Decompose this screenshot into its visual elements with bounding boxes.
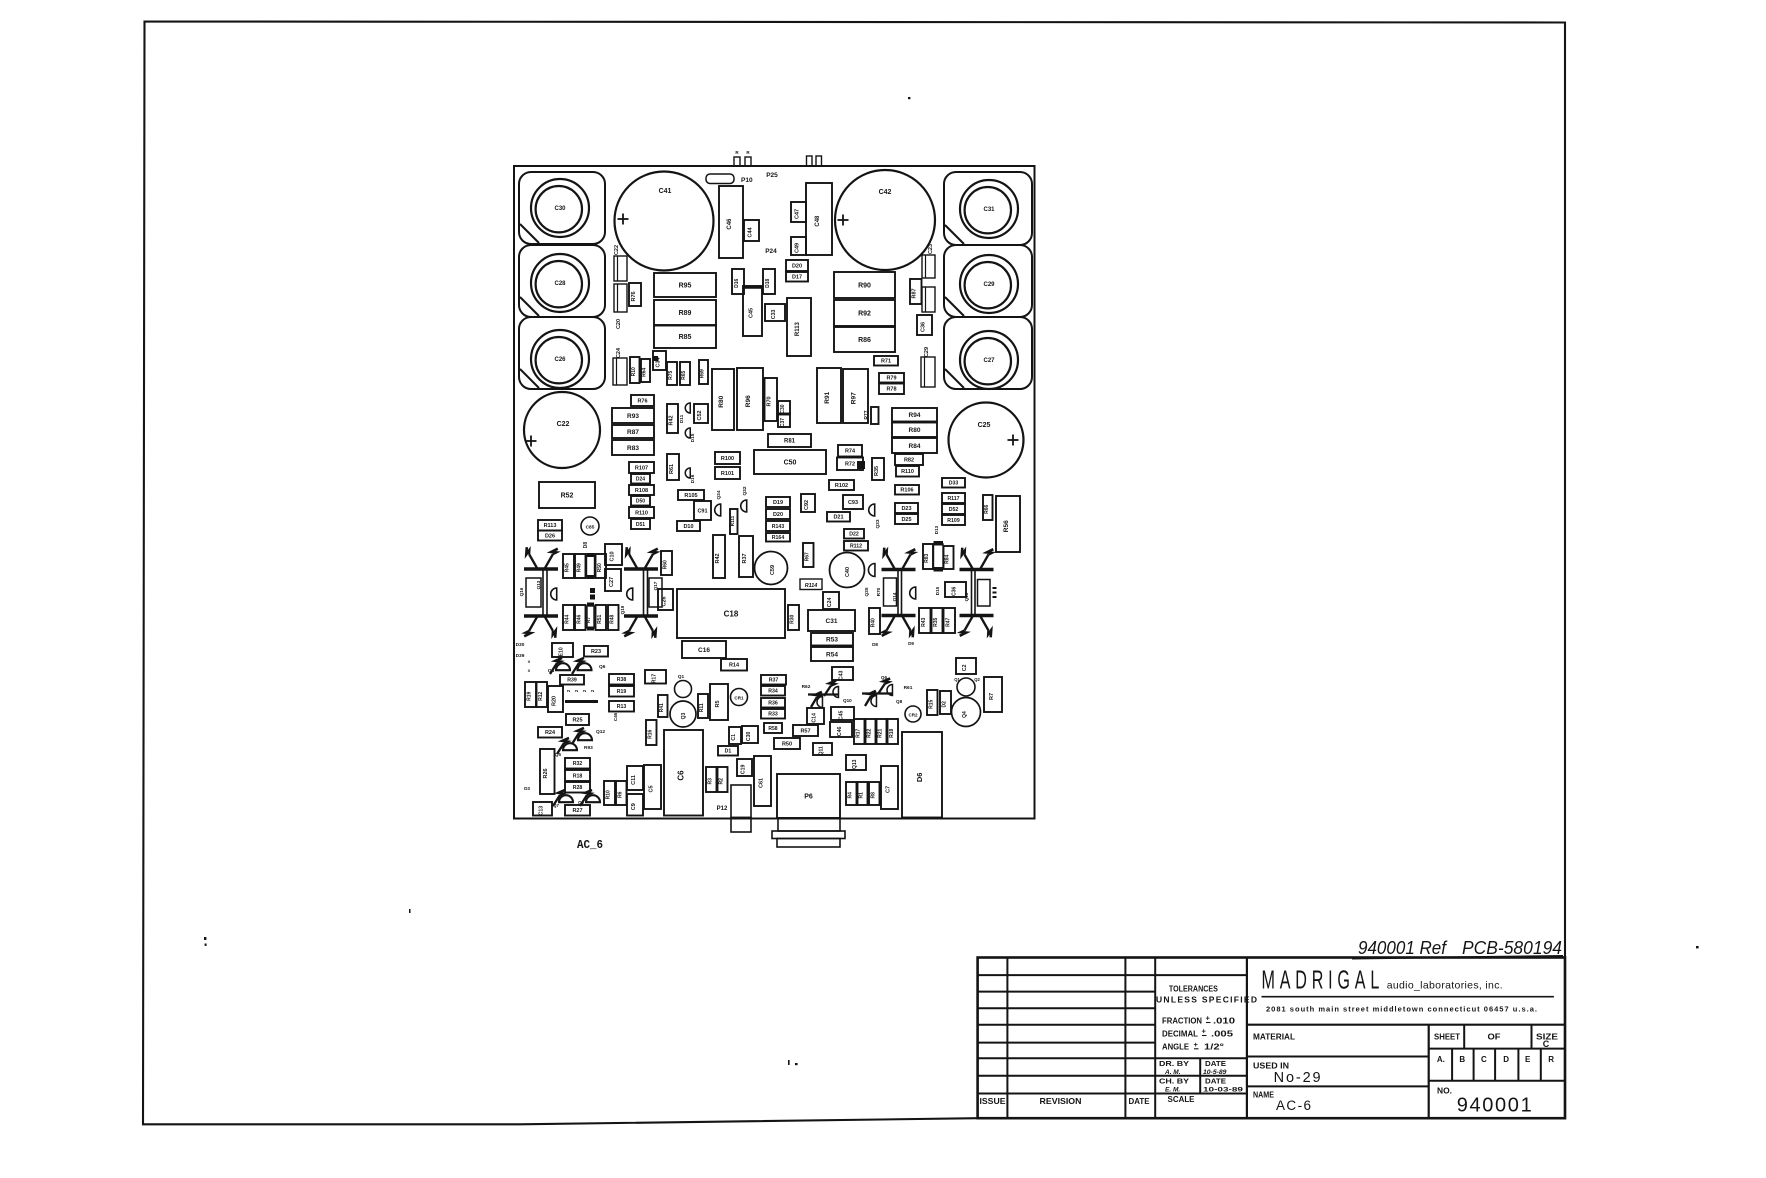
svg-text:R64: R64 bbox=[642, 367, 648, 376]
svg-text:R84: R84 bbox=[909, 443, 921, 450]
svg-text:C23: C23 bbox=[928, 244, 934, 254]
svg-text:C28: C28 bbox=[554, 281, 566, 287]
svg-text:R57: R57 bbox=[800, 728, 810, 734]
svg-text:D22: D22 bbox=[849, 532, 859, 538]
svg-text:R69: R69 bbox=[700, 369, 706, 378]
svg-text:R40: R40 bbox=[871, 618, 877, 627]
svg-text:R80: R80 bbox=[718, 395, 725, 407]
svg-text:Q10: Q10 bbox=[843, 698, 852, 703]
svg-text:C16: C16 bbox=[698, 647, 710, 654]
svg-text:940001 Ref: 940001 Ref bbox=[1358, 938, 1448, 958]
svg-text:Q1: Q1 bbox=[678, 674, 685, 680]
svg-text:R34: R34 bbox=[768, 689, 778, 695]
svg-text:D17: D17 bbox=[792, 275, 802, 281]
svg-text:A.: A. bbox=[1437, 1055, 1445, 1064]
svg-text:R1: R1 bbox=[859, 792, 865, 799]
svg-text:R43: R43 bbox=[921, 617, 927, 626]
svg-text:R18: R18 bbox=[573, 773, 583, 779]
svg-text:P6: P6 bbox=[804, 793, 813, 800]
svg-text:TOLERANCES: TOLERANCES bbox=[1169, 985, 1219, 994]
svg-text:R105: R105 bbox=[684, 493, 697, 499]
svg-text:Q19: Q19 bbox=[620, 605, 625, 614]
svg-text:C2: C2 bbox=[962, 664, 968, 671]
svg-text:R23: R23 bbox=[591, 649, 601, 655]
svg-text:R13: R13 bbox=[617, 704, 627, 710]
svg-text:C48: C48 bbox=[815, 215, 821, 227]
svg-text:R87: R87 bbox=[627, 429, 639, 436]
svg-text:E: E bbox=[1525, 1055, 1531, 1064]
svg-text:C7: C7 bbox=[886, 786, 892, 793]
svg-text:C19: C19 bbox=[741, 764, 747, 774]
svg-text:D15: D15 bbox=[935, 586, 940, 595]
svg-text:C92: C92 bbox=[804, 500, 810, 510]
svg-text:R16: R16 bbox=[647, 729, 653, 738]
svg-text:R83: R83 bbox=[627, 445, 639, 452]
svg-text:R39: R39 bbox=[567, 678, 577, 684]
svg-text:P25: P25 bbox=[766, 172, 778, 179]
svg-text:D8: D8 bbox=[583, 542, 589, 549]
svg-text:R22: R22 bbox=[867, 728, 873, 737]
svg-text:R91: R91 bbox=[824, 391, 831, 403]
svg-text:C13: C13 bbox=[539, 806, 545, 816]
svg-text:R83: R83 bbox=[924, 553, 930, 562]
svg-text:OF: OF bbox=[1488, 1032, 1501, 1042]
svg-text:R80: R80 bbox=[909, 427, 921, 434]
svg-text:R27: R27 bbox=[572, 808, 582, 814]
svg-text:C47: C47 bbox=[795, 209, 801, 219]
svg-text:D2: D2 bbox=[942, 701, 948, 708]
svg-text:D26: D26 bbox=[545, 533, 555, 539]
svg-text:R26: R26 bbox=[543, 768, 549, 778]
svg-text:C42: C42 bbox=[879, 189, 892, 196]
svg-text:R79: R79 bbox=[886, 376, 896, 382]
svg-text:R67: R67 bbox=[804, 552, 810, 561]
svg-text:R110: R110 bbox=[635, 510, 648, 516]
svg-text:D1: D1 bbox=[725, 749, 732, 755]
svg-text:R2: R2 bbox=[719, 778, 725, 785]
svg-text:P24: P24 bbox=[765, 248, 777, 255]
svg-text:C1: C1 bbox=[731, 734, 737, 741]
svg-text:R78: R78 bbox=[886, 387, 896, 393]
svg-text:R66: R66 bbox=[984, 504, 990, 513]
svg-text:AC_6: AC_6 bbox=[577, 839, 603, 852]
svg-text:R61: R61 bbox=[669, 464, 675, 474]
svg-text:DATE: DATE bbox=[1205, 1061, 1226, 1068]
svg-text:R60: R60 bbox=[663, 560, 669, 569]
svg-text:C49: C49 bbox=[795, 243, 801, 253]
svg-text:R48: R48 bbox=[609, 614, 615, 623]
svg-text:C36: C36 bbox=[921, 322, 927, 332]
svg-text:R101: R101 bbox=[721, 471, 734, 477]
svg-text:D21: D21 bbox=[833, 515, 843, 521]
svg-text:R77: R77 bbox=[864, 410, 870, 419]
svg-text:R11: R11 bbox=[699, 703, 705, 712]
svg-text:NAME: NAME bbox=[1253, 1090, 1274, 1100]
svg-text:SCALE: SCALE bbox=[1168, 1094, 1195, 1104]
svg-text:C61: C61 bbox=[759, 778, 765, 788]
svg-text:R107: R107 bbox=[635, 465, 648, 471]
svg-text:X: X bbox=[528, 668, 531, 673]
svg-text:D50: D50 bbox=[636, 499, 645, 505]
svg-text:R30: R30 bbox=[790, 614, 796, 623]
svg-text:Q3: Q3 bbox=[681, 712, 687, 719]
svg-text:R52: R52 bbox=[561, 492, 574, 499]
svg-text:R75: R75 bbox=[668, 370, 674, 379]
svg-text:CR2: CR2 bbox=[908, 713, 917, 718]
svg-text:R82: R82 bbox=[904, 457, 914, 463]
svg-text:R10: R10 bbox=[631, 367, 637, 376]
svg-text:D23: D23 bbox=[901, 506, 911, 512]
svg-text:D33: D33 bbox=[949, 481, 959, 487]
svg-text:R32: R32 bbox=[573, 761, 583, 767]
svg-text:Q35: Q35 bbox=[864, 587, 870, 596]
svg-text:E. M.: E. M. bbox=[1165, 1086, 1180, 1093]
svg-text:2081 south main street middlet: 2081 south main street middletown connec… bbox=[1266, 1005, 1537, 1014]
svg-text:C29: C29 bbox=[983, 282, 995, 288]
svg-text:D15: D15 bbox=[690, 433, 696, 442]
svg-text:R117: R117 bbox=[947, 496, 959, 502]
svg-text:C22: C22 bbox=[614, 245, 620, 255]
svg-text:R90: R90 bbox=[858, 282, 871, 289]
svg-text:C44: C44 bbox=[748, 226, 754, 237]
svg-text:C10: C10 bbox=[610, 551, 616, 561]
svg-text:X: X bbox=[528, 659, 531, 664]
svg-text:R6: R6 bbox=[617, 791, 623, 798]
svg-text:C26: C26 bbox=[662, 596, 668, 606]
svg-text:R38: R38 bbox=[617, 677, 627, 683]
svg-text:C24: C24 bbox=[827, 597, 833, 607]
svg-text:D52: D52 bbox=[949, 507, 959, 513]
svg-text:C93: C93 bbox=[848, 500, 858, 506]
svg-text:R35: R35 bbox=[874, 466, 880, 476]
svg-text:R41: R41 bbox=[659, 703, 665, 712]
svg-text:C30: C30 bbox=[780, 404, 786, 413]
svg-text:C22: C22 bbox=[557, 421, 570, 428]
svg-text:C85: C85 bbox=[586, 525, 595, 531]
svg-text:C31: C31 bbox=[983, 207, 995, 213]
svg-text:R10: R10 bbox=[606, 790, 612, 799]
svg-text:R61: R61 bbox=[904, 685, 913, 691]
svg-text:D3: D3 bbox=[524, 786, 530, 791]
svg-text:R19: R19 bbox=[617, 689, 627, 695]
svg-text:R47: R47 bbox=[945, 617, 951, 626]
svg-text:R5: R5 bbox=[715, 700, 721, 707]
svg-text:Q33: Q33 bbox=[875, 519, 881, 528]
svg-text:10-03-89: 10-03-89 bbox=[1203, 1087, 1243, 1094]
svg-text:R17: R17 bbox=[855, 728, 861, 737]
svg-text:C29: C29 bbox=[924, 347, 930, 357]
svg-text:R50: R50 bbox=[597, 563, 603, 572]
svg-text:R: R bbox=[1548, 1055, 1554, 1064]
svg-text:B: B bbox=[1459, 1055, 1465, 1064]
svg-text:R85: R85 bbox=[679, 334, 692, 341]
svg-text:C26: C26 bbox=[554, 357, 566, 363]
svg-text:R93: R93 bbox=[584, 745, 593, 751]
svg-text:R74: R74 bbox=[845, 449, 856, 455]
svg-text:R44: R44 bbox=[565, 614, 571, 623]
svg-text:R76: R76 bbox=[631, 291, 637, 301]
svg-text:+: + bbox=[1202, 1027, 1207, 1036]
svg-text:Q13: Q13 bbox=[852, 759, 858, 769]
svg-text:C46: C46 bbox=[613, 712, 618, 721]
svg-text:D30: D30 bbox=[516, 642, 525, 648]
svg-text:C14: C14 bbox=[812, 713, 818, 723]
svg-text:R70: R70 bbox=[876, 587, 881, 596]
svg-text:D20: D20 bbox=[792, 263, 802, 269]
svg-text:R8: R8 bbox=[870, 792, 876, 799]
svg-text:R54: R54 bbox=[826, 651, 838, 658]
svg-text:Q6: Q6 bbox=[881, 675, 888, 680]
svg-text:R37: R37 bbox=[769, 678, 779, 684]
svg-text:Q8: Q8 bbox=[896, 699, 903, 704]
svg-text:FRACTION: FRACTION bbox=[1162, 1015, 1202, 1025]
svg-text:R45: R45 bbox=[565, 563, 571, 572]
svg-text:R164: R164 bbox=[772, 535, 785, 541]
svg-text:Q2: Q2 bbox=[974, 677, 980, 682]
svg-text:R72: R72 bbox=[845, 462, 855, 468]
svg-text:R102: R102 bbox=[835, 483, 848, 489]
svg-text:R81: R81 bbox=[784, 439, 796, 445]
svg-text:C36: C36 bbox=[952, 586, 958, 595]
svg-text:R42: R42 bbox=[715, 553, 721, 563]
svg-text:R36: R36 bbox=[768, 701, 778, 707]
svg-text:R51: R51 bbox=[597, 614, 603, 623]
svg-text:R112: R112 bbox=[850, 544, 862, 550]
svg-text:R86: R86 bbox=[858, 337, 871, 344]
svg-text:Q1: Q1 bbox=[954, 677, 960, 682]
svg-text:AC-6: AC-6 bbox=[1276, 1098, 1311, 1113]
svg-text:ANGLE: ANGLE bbox=[1162, 1042, 1189, 1052]
svg-text:D19: D19 bbox=[773, 500, 783, 506]
svg-text:C24: C24 bbox=[616, 347, 622, 358]
svg-text:R35: R35 bbox=[933, 617, 939, 626]
svg-text:C30: C30 bbox=[746, 731, 752, 741]
svg-text:MATERIAL: MATERIAL bbox=[1253, 1032, 1295, 1042]
svg-text:R50: R50 bbox=[782, 741, 792, 747]
svg-text:MADRIGAL: MADRIGAL bbox=[1262, 964, 1380, 994]
svg-text:+: + bbox=[1194, 1040, 1199, 1049]
svg-text:R111: R111 bbox=[730, 515, 735, 526]
svg-text:UNLESS SPECIFIED: UNLESS SPECIFIED bbox=[1156, 994, 1257, 1004]
svg-text:R93: R93 bbox=[627, 413, 639, 420]
svg-text:Q4: Q4 bbox=[962, 711, 968, 718]
svg-text:D9: D9 bbox=[908, 641, 914, 646]
svg-text:R4: R4 bbox=[847, 792, 853, 799]
svg-text:C43: C43 bbox=[839, 670, 845, 680]
svg-text:R65: R65 bbox=[681, 370, 687, 379]
svg-text:R25: R25 bbox=[572, 717, 582, 723]
svg-text:D11: D11 bbox=[679, 414, 685, 423]
svg-text:D16: D16 bbox=[690, 474, 696, 483]
svg-text:Q13: Q13 bbox=[536, 580, 541, 589]
svg-text:R87: R87 bbox=[912, 288, 918, 298]
svg-text:C45: C45 bbox=[749, 308, 755, 318]
svg-text:C52: C52 bbox=[697, 410, 703, 420]
svg-text:R95: R95 bbox=[679, 282, 692, 289]
svg-text:C37: C37 bbox=[780, 418, 786, 427]
svg-text:audio_laboratories, inc.: audio_laboratories, inc. bbox=[1387, 979, 1503, 991]
svg-text:R33: R33 bbox=[768, 712, 778, 718]
svg-text:Q11: Q11 bbox=[819, 746, 825, 755]
svg-text:C33: C33 bbox=[771, 309, 777, 319]
svg-text:C9: C9 bbox=[631, 803, 637, 810]
svg-text:D20: D20 bbox=[773, 512, 783, 518]
svg-text:R37: R37 bbox=[742, 553, 748, 563]
svg-text:C40: C40 bbox=[845, 567, 851, 577]
svg-text:R89: R89 bbox=[679, 310, 692, 317]
svg-text:R42: R42 bbox=[669, 415, 675, 425]
svg-text:NO.: NO. bbox=[1437, 1086, 1452, 1096]
svg-text:R92: R92 bbox=[858, 310, 871, 317]
svg-text:No-29: No-29 bbox=[1274, 1070, 1321, 1086]
svg-text:R17: R17 bbox=[652, 674, 658, 684]
svg-text:Q16: Q16 bbox=[519, 587, 524, 596]
svg-text:R94: R94 bbox=[909, 412, 921, 419]
svg-text:C41: C41 bbox=[659, 188, 672, 195]
svg-text:R71: R71 bbox=[881, 359, 891, 365]
svg-text:Q32: Q32 bbox=[742, 486, 748, 495]
svg-text:D13: D13 bbox=[934, 525, 939, 534]
svg-text:C25: C25 bbox=[978, 422, 991, 429]
svg-text:R109: R109 bbox=[947, 518, 960, 524]
svg-text:.010: .010 bbox=[1213, 1015, 1235, 1025]
svg-text:R24: R24 bbox=[545, 730, 556, 736]
svg-text:R106: R106 bbox=[900, 488, 913, 494]
svg-text:CR1: CR1 bbox=[734, 696, 744, 701]
svg-text:R97: R97 bbox=[851, 392, 858, 404]
svg-text:P10: P10 bbox=[741, 177, 753, 184]
svg-text:R58: R58 bbox=[768, 726, 777, 732]
svg-text:R21: R21 bbox=[878, 728, 884, 737]
svg-text:R113: R113 bbox=[795, 321, 801, 336]
svg-text:D25: D25 bbox=[901, 517, 911, 523]
svg-text:R96: R96 bbox=[745, 395, 752, 407]
svg-text:C18: C18 bbox=[724, 609, 739, 618]
svg-text:C46: C46 bbox=[727, 218, 733, 230]
svg-text:D51: D51 bbox=[636, 522, 645, 528]
svg-text:R28: R28 bbox=[573, 785, 583, 791]
svg-text:Q6: Q6 bbox=[599, 664, 606, 670]
svg-text:R56: R56 bbox=[1003, 520, 1010, 532]
svg-text:DATE: DATE bbox=[1205, 1078, 1226, 1085]
svg-text:C45: C45 bbox=[839, 710, 845, 720]
svg-text:C5: C5 bbox=[649, 785, 655, 792]
svg-text:R70: R70 bbox=[767, 396, 773, 406]
svg-text:C30: C30 bbox=[554, 206, 566, 212]
svg-text:R62: R62 bbox=[802, 684, 811, 690]
svg-text:C: C bbox=[1543, 1039, 1550, 1049]
svg-text:DATE: DATE bbox=[1129, 1097, 1151, 1106]
svg-text:C46: C46 bbox=[837, 726, 843, 736]
svg-text:R20: R20 bbox=[552, 696, 558, 706]
svg-text:R49: R49 bbox=[576, 563, 582, 572]
svg-text:D18: D18 bbox=[765, 278, 771, 287]
svg-text:D: D bbox=[1503, 1055, 1509, 1064]
svg-text:SHEET: SHEET bbox=[1434, 1032, 1461, 1042]
svg-text:R113: R113 bbox=[544, 523, 557, 529]
svg-text:R114: R114 bbox=[805, 583, 818, 589]
svg-text:C50: C50 bbox=[784, 459, 797, 466]
svg-text:R15: R15 bbox=[928, 699, 934, 708]
svg-text:R12: R12 bbox=[538, 691, 544, 700]
svg-text:REVISION: REVISION bbox=[1040, 1097, 1082, 1106]
svg-text:DR. BY: DR. BY bbox=[1159, 1061, 1189, 1068]
svg-text:Q34: Q34 bbox=[716, 490, 722, 499]
svg-text:R84: R84 bbox=[945, 554, 951, 563]
svg-text:USED IN: USED IN bbox=[1253, 1061, 1289, 1071]
svg-text:R14: R14 bbox=[729, 663, 740, 669]
svg-text:P12: P12 bbox=[717, 806, 728, 812]
svg-text:10-5-89: 10-5-89 bbox=[1203, 1069, 1227, 1076]
svg-text:C91: C91 bbox=[697, 508, 707, 514]
svg-text:1/2°: 1/2° bbox=[1204, 1042, 1225, 1052]
svg-text:R18: R18 bbox=[889, 728, 895, 737]
svg-text:R110: R110 bbox=[901, 469, 914, 475]
svg-text:C11: C11 bbox=[631, 775, 637, 785]
svg-text:Q14: Q14 bbox=[892, 592, 897, 601]
svg-text:D10: D10 bbox=[683, 524, 693, 530]
svg-text:C59: C59 bbox=[770, 565, 776, 575]
svg-text:.005: .005 bbox=[1211, 1028, 1233, 1038]
svg-text:C31: C31 bbox=[826, 618, 838, 625]
svg-text:E10: E10 bbox=[559, 647, 565, 656]
svg-text:D6: D6 bbox=[915, 773, 924, 783]
svg-text:R7: R7 bbox=[989, 693, 995, 700]
svg-text:R3: R3 bbox=[707, 778, 713, 785]
svg-text:C20: C20 bbox=[616, 319, 622, 329]
svg-text:R108: R108 bbox=[635, 488, 648, 494]
svg-text:DECIMAL: DECIMAL bbox=[1162, 1028, 1198, 1038]
svg-text:R53: R53 bbox=[826, 637, 838, 644]
svg-text:C: C bbox=[1481, 1055, 1487, 1064]
svg-text:R19: R19 bbox=[527, 691, 533, 700]
svg-text:R100: R100 bbox=[721, 456, 734, 462]
svg-text:Q12: Q12 bbox=[596, 729, 605, 735]
svg-text:R46: R46 bbox=[576, 614, 582, 623]
svg-text:R7: R7 bbox=[586, 617, 591, 623]
svg-text:A. M.: A. M. bbox=[1164, 1069, 1181, 1076]
svg-text:PCB-580194: PCB-580194 bbox=[1462, 938, 1562, 958]
svg-text:D39: D39 bbox=[516, 653, 525, 659]
svg-text:R143: R143 bbox=[772, 524, 785, 530]
svg-text:CH. BY: CH. BY bbox=[1159, 1078, 1189, 1085]
svg-text:D8: D8 bbox=[872, 642, 878, 647]
svg-text:+: + bbox=[1206, 1014, 1211, 1023]
svg-text:ISSUE: ISSUE bbox=[980, 1097, 1007, 1106]
svg-text:R76: R76 bbox=[637, 398, 647, 404]
svg-text:D24: D24 bbox=[636, 477, 645, 483]
svg-text:C6: C6 bbox=[677, 770, 686, 781]
svg-text:D16: D16 bbox=[734, 278, 740, 287]
svg-text:C27: C27 bbox=[609, 577, 615, 587]
svg-text:C27: C27 bbox=[983, 358, 995, 364]
